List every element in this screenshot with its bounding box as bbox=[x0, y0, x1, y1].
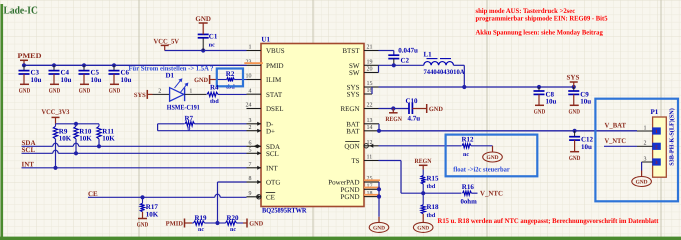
power pin marker bbox=[364, 194, 380, 196]
capacitor C4 bbox=[53, 65, 55, 70]
svg-text:GND: GND bbox=[487, 155, 499, 161]
junction CE R17 bbox=[140, 195, 144, 199]
wire SYS rail bbox=[379, 86, 574, 88]
resistor R12 bbox=[462, 144, 471, 148]
ground ellipse R18 bbox=[413, 222, 433, 232]
pin 8 OTG bbox=[247, 181, 262, 183]
svg-text:10u: 10u bbox=[546, 97, 557, 105]
wire QON bbox=[379, 145, 462, 147]
power port GND at C10 bbox=[426, 104, 428, 113]
svg-text:GND: GND bbox=[194, 77, 208, 84]
svg-text:tbd: tbd bbox=[210, 98, 219, 105]
sheet border bottom bbox=[0, 237, 681, 240]
wire PGND bracket bbox=[378, 182, 380, 197]
junction SDA R11 bbox=[97, 144, 101, 148]
svg-text:HSME-C191: HSME-C191 bbox=[167, 103, 200, 111]
svg-text:18: 18 bbox=[367, 191, 373, 197]
svg-text:0.047u: 0.047u bbox=[398, 46, 418, 54]
svg-text:L1: L1 bbox=[424, 50, 433, 58]
led D1 bbox=[170, 88, 184, 102]
svg-text:programmierbar shipmode EIN: R: programmierbar shipmode EIN: REG09 - Bit… bbox=[476, 14, 608, 22]
wire CE bbox=[88, 196, 215, 198]
svg-text:C10: C10 bbox=[406, 97, 419, 105]
svg-text:BTST: BTST bbox=[342, 47, 360, 55]
svg-text:6: 6 bbox=[249, 141, 252, 147]
resistor R16 bbox=[463, 191, 472, 195]
wire R9 to INT bbox=[55, 139, 57, 168]
svg-text:9: 9 bbox=[249, 191, 252, 197]
junction C8 bbox=[537, 85, 541, 89]
power port PMID at R19 bbox=[184, 219, 186, 228]
pin 17 PGND bbox=[364, 188, 379, 190]
wire SYS pair bracket bbox=[371, 87, 373, 94]
svg-text:S3B-PH-K-S(LF)(SN): S3B-PH-K-S(LF)(SN) bbox=[669, 108, 676, 166]
wire R12 gnd bbox=[492, 146, 494, 152]
resistor R11 bbox=[98, 124, 100, 126]
svg-text:REGN: REGN bbox=[415, 158, 432, 165]
junction PGND 17 bbox=[377, 187, 381, 191]
svg-text:R15 u. R18 werden auf NTC ange: R15 u. R18 werden auf NTC angepasst; Ber… bbox=[438, 217, 660, 225]
wire SW pair bracket bbox=[378, 65, 380, 72]
wire D1 cathode bbox=[185, 93, 207, 95]
svg-text:10u: 10u bbox=[91, 76, 102, 84]
svg-text:R20: R20 bbox=[227, 214, 240, 222]
svg-text:24: 24 bbox=[246, 103, 252, 109]
svg-text:tbd: tbd bbox=[427, 212, 436, 219]
svg-text:REGN: REGN bbox=[340, 105, 359, 113]
junction INT R9 bbox=[53, 166, 57, 170]
svg-text:R2: R2 bbox=[226, 70, 235, 78]
resistor R7 bbox=[158, 123, 185, 125]
svg-text:R19: R19 bbox=[195, 214, 208, 222]
svg-text:DSEL: DSEL bbox=[266, 105, 284, 113]
pin 1 VBUS bbox=[247, 50, 262, 52]
svg-text:D+: D+ bbox=[266, 127, 275, 135]
pin 6 SDA bbox=[247, 145, 262, 147]
svg-text:R16: R16 bbox=[462, 183, 475, 191]
svg-text:74404043010A: 74404043010A bbox=[424, 69, 465, 76]
wire REGN bbox=[379, 108, 410, 110]
svg-text:PGND: PGND bbox=[340, 193, 359, 201]
wire VBUS bbox=[165, 50, 247, 52]
svg-text:SYS: SYS bbox=[134, 92, 146, 99]
svg-text:GND: GND bbox=[429, 106, 443, 113]
svg-text:C1: C1 bbox=[209, 33, 218, 41]
pin 23 PMID bbox=[247, 64, 262, 66]
resistor R10 bbox=[75, 124, 77, 126]
svg-text:VBUS: VBUS bbox=[266, 47, 285, 55]
wire P1 pin3 gnd bbox=[642, 161, 653, 163]
power port PMED bbox=[20, 59, 28, 61]
svg-text:25: 25 bbox=[367, 176, 373, 182]
svg-text:SCL: SCL bbox=[266, 150, 279, 158]
pin 11 TS bbox=[364, 160, 379, 162]
svg-text:15: 15 bbox=[367, 81, 373, 87]
svg-text:GND: GND bbox=[569, 155, 581, 162]
svg-text:GND: GND bbox=[109, 88, 121, 95]
svg-text:tbd: tbd bbox=[427, 183, 436, 190]
svg-text:D1: D1 bbox=[166, 72, 175, 80]
svg-text:20: 20 bbox=[367, 67, 373, 73]
wire R10 to SCL bbox=[75, 139, 77, 153]
svg-text:nc: nc bbox=[198, 227, 204, 233]
svg-text:V_BAT: V_BAT bbox=[605, 122, 627, 130]
resistor R20 bbox=[226, 221, 237, 225]
svg-text:PMID: PMID bbox=[166, 221, 184, 228]
svg-text:BAT: BAT bbox=[346, 127, 360, 135]
pin 13 BAT bbox=[364, 123, 379, 125]
svg-text:GND: GND bbox=[417, 225, 429, 231]
pin 14 BAT bbox=[364, 130, 379, 132]
svg-text:nc: nc bbox=[463, 152, 469, 158]
wire L1 to SYS bbox=[454, 64, 465, 66]
op IC body U1 bbox=[261, 44, 364, 207]
annotation box R2 bbox=[217, 69, 243, 87]
svg-text:10K: 10K bbox=[102, 134, 115, 142]
ground ellipse R12 bbox=[483, 152, 503, 162]
pin arrow bbox=[257, 151, 261, 155]
svg-text:BQ25895RTWR: BQ25895RTWR bbox=[262, 207, 307, 215]
connector pad 1 bbox=[652, 127, 661, 134]
svg-text:VCC_3V3: VCC_3V3 bbox=[42, 108, 70, 116]
annotation box R12 bbox=[446, 135, 538, 177]
svg-text:14: 14 bbox=[367, 125, 373, 131]
capacitor C1 bbox=[202, 38, 204, 51]
power port VCC_5V bbox=[161, 44, 169, 46]
power port VCC_3V3 bbox=[52, 116, 60, 118]
power port GND under R17 bbox=[138, 218, 147, 220]
pin 9 CE bbox=[247, 196, 262, 198]
pin 23 power marker bbox=[244, 62, 262, 64]
resistor R19 bbox=[192, 222, 194, 224]
resistor R17 bbox=[142, 197, 144, 203]
power port REGN below bbox=[392, 109, 394, 113]
svg-text:GND: GND bbox=[79, 88, 91, 95]
resistor R4 bbox=[207, 92, 218, 96]
junction C1 tap bbox=[201, 48, 205, 52]
connector pad 2 bbox=[652, 143, 661, 150]
svg-text:nc: nc bbox=[230, 227, 236, 233]
capacitor C6 bbox=[113, 65, 115, 70]
pin 12 QON bbox=[364, 145, 379, 147]
wire PGND down bbox=[378, 197, 380, 217]
svg-text:GND: GND bbox=[636, 180, 648, 186]
power port GND above C1 bbox=[199, 22, 208, 24]
connector pad 3 bbox=[652, 158, 661, 165]
junction REGN bbox=[391, 106, 395, 110]
pin 10 ILIM bbox=[247, 79, 262, 81]
pin 19 SW bbox=[364, 64, 379, 66]
svg-text:0: 0 bbox=[187, 126, 190, 132]
pin 5 SCL bbox=[247, 152, 262, 154]
svg-text:R12: R12 bbox=[462, 135, 475, 143]
wire D1 anode bbox=[153, 93, 170, 95]
pin arrow SDA out bbox=[254, 144, 258, 148]
pin arrow bbox=[257, 195, 261, 199]
svg-text:13: 13 bbox=[367, 118, 373, 124]
pin 2 D+ bbox=[247, 130, 262, 132]
svg-text:STAT: STAT bbox=[266, 91, 283, 99]
svg-text:3: 3 bbox=[249, 118, 252, 124]
pin arrow bbox=[257, 166, 261, 170]
svg-text:10u: 10u bbox=[61, 76, 72, 84]
junction TS node bbox=[421, 191, 425, 195]
pin 21 BTST bbox=[364, 50, 379, 52]
svg-text:P1: P1 bbox=[651, 108, 659, 116]
power port SYS at D1 bbox=[146, 90, 148, 99]
svg-text:19: 19 bbox=[367, 60, 373, 66]
svg-text:1: 1 bbox=[249, 45, 252, 51]
pin 20 SW bbox=[364, 72, 379, 74]
junction L1 SYS bbox=[462, 85, 466, 89]
svg-text:VCC_5V: VCC_5V bbox=[154, 37, 180, 45]
wire V_NTC bbox=[604, 145, 637, 147]
svg-text:21: 21 bbox=[367, 45, 373, 51]
svg-text:C2: C2 bbox=[401, 56, 410, 64]
pin 25 PowerPAD bbox=[364, 181, 379, 183]
junction OTG divider bbox=[215, 221, 219, 225]
svg-text:SW: SW bbox=[349, 69, 360, 77]
resistor R9 bbox=[55, 124, 57, 126]
pin 3 D- bbox=[247, 123, 262, 125]
svg-text:V_NTC: V_NTC bbox=[605, 137, 627, 145]
svg-text:GND: GND bbox=[49, 88, 61, 95]
svg-text:U1: U1 bbox=[261, 36, 270, 44]
capacitor C8 bbox=[538, 87, 540, 91]
junction C9 bbox=[572, 85, 576, 89]
wire D+ link bbox=[157, 124, 159, 131]
pin arrow QON bbox=[369, 144, 373, 148]
svg-text:0ohm: 0ohm bbox=[461, 198, 478, 205]
capacitor C2 bbox=[388, 54, 399, 56]
resistor R15 bbox=[422, 170, 424, 176]
wire SW bbox=[379, 64, 424, 66]
svg-text:GND: GND bbox=[249, 221, 263, 228]
svg-text:GND: GND bbox=[534, 109, 546, 116]
svg-text:OTG: OTG bbox=[266, 179, 280, 187]
connector P1 body bbox=[653, 117, 667, 177]
junction R10 top bbox=[74, 122, 78, 126]
wire R11 to SDA bbox=[98, 139, 100, 146]
svg-text:10u: 10u bbox=[121, 76, 132, 84]
svg-text:10K: 10K bbox=[59, 134, 72, 142]
wire OTG bbox=[218, 181, 247, 183]
junction C4 bbox=[52, 63, 56, 67]
sheet border left bbox=[1, 4, 4, 240]
capacitor C3 bbox=[23, 65, 25, 70]
wire INT bbox=[22, 167, 247, 169]
capacitor C9 bbox=[573, 87, 575, 91]
pin arrow bbox=[257, 180, 261, 184]
pin 16 SYS bbox=[364, 93, 372, 95]
svg-text:2: 2 bbox=[249, 125, 252, 131]
wire to R16 bbox=[423, 192, 461, 194]
svg-text:SYS: SYS bbox=[567, 74, 580, 82]
inductor L1 bbox=[424, 62, 454, 66]
svg-text:TS: TS bbox=[351, 157, 359, 165]
wire BAT rail bbox=[379, 130, 637, 132]
svg-text:Akku Spannung lesen: siehe Mon: Akku Spannung lesen: siehe Monday Beitra… bbox=[476, 28, 604, 36]
svg-text:GND: GND bbox=[569, 109, 581, 116]
svg-text:R7: R7 bbox=[185, 115, 194, 123]
junction C6 bbox=[112, 63, 116, 67]
pin arrow bbox=[257, 122, 261, 126]
junction PGND 18 bbox=[377, 195, 381, 199]
svg-text:8: 8 bbox=[249, 176, 252, 182]
wire BAT pair bracket bbox=[378, 124, 380, 131]
power pin marker bbox=[364, 179, 380, 181]
svg-text:R15: R15 bbox=[427, 174, 440, 182]
junction SCL R10 bbox=[74, 151, 78, 155]
svg-text:4: 4 bbox=[249, 88, 252, 94]
svg-text:PMED: PMED bbox=[18, 52, 42, 60]
wire V_BAT to P1 bbox=[637, 130, 653, 132]
svg-text:ILIM: ILIM bbox=[266, 76, 282, 84]
pin 24 DSEL bbox=[247, 108, 262, 110]
pin 15 SYS bbox=[364, 86, 379, 88]
svg-text:4.7u: 4.7u bbox=[408, 114, 421, 122]
pin 7 INT bbox=[247, 167, 262, 169]
wire BTST bbox=[379, 50, 394, 52]
svg-text:SYS: SYS bbox=[347, 91, 360, 99]
junction C5 bbox=[82, 63, 86, 67]
svg-text:10u: 10u bbox=[31, 76, 42, 84]
wire PMED rail bbox=[24, 64, 247, 66]
svg-text:7: 7 bbox=[249, 162, 252, 168]
svg-text:22: 22 bbox=[367, 103, 373, 109]
junction C2 SW bbox=[392, 63, 396, 67]
svg-text:R18: R18 bbox=[427, 203, 440, 211]
capacitor C12 bbox=[574, 131, 576, 137]
ground ellipse P1 bbox=[632, 177, 652, 187]
capacitor C10 bbox=[408, 103, 410, 114]
pin arrow bbox=[257, 129, 261, 133]
svg-text:Lade-IC: Lade-IC bbox=[4, 6, 38, 17]
svg-text:CE: CE bbox=[266, 193, 275, 201]
svg-text:REGN: REGN bbox=[385, 116, 402, 123]
capacitor C5 bbox=[83, 65, 85, 70]
junction BAT bbox=[377, 129, 381, 133]
wire SDA bbox=[22, 145, 53, 147]
wire TS bbox=[379, 160, 402, 162]
svg-text:QON: QON bbox=[344, 142, 359, 150]
svg-text:PMID: PMID bbox=[266, 62, 284, 70]
svg-text:GND: GND bbox=[373, 225, 385, 231]
svg-text:INT: INT bbox=[266, 164, 278, 172]
svg-text:GND: GND bbox=[19, 88, 31, 95]
junction C3 bbox=[22, 63, 26, 67]
wire SCL bbox=[22, 152, 53, 154]
svg-text:1: 1 bbox=[189, 89, 192, 95]
pin arrow bbox=[257, 144, 261, 148]
svg-text:5: 5 bbox=[249, 148, 252, 154]
power pin marker bbox=[364, 187, 380, 189]
svg-text:11: 11 bbox=[367, 155, 373, 161]
power port GND at R2 bbox=[209, 75, 211, 84]
svg-text:2: 2 bbox=[158, 89, 161, 95]
annotation box P1 bbox=[595, 99, 678, 202]
wire 3V3 rail bbox=[56, 123, 100, 125]
svg-text:nc: nc bbox=[209, 42, 215, 48]
svg-text:10K: 10K bbox=[146, 210, 159, 218]
svg-text:10u: 10u bbox=[581, 143, 592, 151]
svg-text:10u: 10u bbox=[580, 97, 591, 105]
svg-text:10: 10 bbox=[246, 74, 252, 80]
resistor R18 bbox=[422, 193, 424, 205]
pin 4 STAT bbox=[247, 93, 262, 95]
svg-text:10K: 10K bbox=[79, 134, 92, 142]
power port SYS right bbox=[570, 81, 578, 83]
svg-text:GND: GND bbox=[195, 15, 211, 23]
ground ellipse PGND bbox=[369, 222, 389, 232]
pin 18 PGND bbox=[364, 196, 379, 198]
junction C12 bbox=[573, 129, 577, 133]
resistor R2 bbox=[218, 79, 227, 81]
pin 22 REGN bbox=[364, 108, 379, 110]
svg-text:17: 17 bbox=[367, 184, 373, 190]
svg-text:GND: GND bbox=[137, 222, 149, 229]
svg-text:V_NTC: V_NTC bbox=[480, 190, 503, 198]
svg-text:R4: R4 bbox=[210, 84, 219, 92]
power port GND at R20 bbox=[243, 222, 247, 224]
svg-text:float ->i2c steuerbar: float ->i2c steuerbar bbox=[453, 166, 510, 174]
